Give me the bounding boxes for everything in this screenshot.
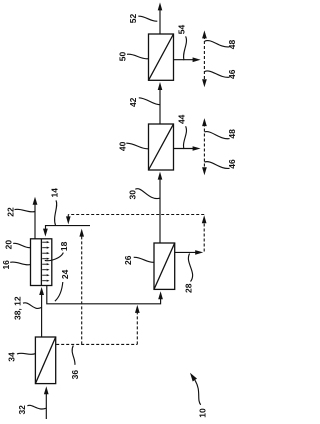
leader for 50 <box>127 54 148 59</box>
leader for 48 middle <box>205 132 230 139</box>
arrowhead bypass up into line 24 <box>135 305 140 313</box>
dashed recycle wire from 28 junction up and left into line 14 <box>68 215 204 252</box>
svg-text:48: 48 <box>227 40 237 50</box>
wire: stream 28 out of box 26 right <box>175 251 199 253</box>
leader for 42 <box>139 98 160 105</box>
svg-text:22: 22 <box>5 207 15 217</box>
svg-text:24: 24 <box>60 269 70 279</box>
arrowhead stream 38,12 into membrane unit <box>39 287 44 295</box>
wire: stream 54 out of box 50 right <box>174 59 197 61</box>
leader for 38, 12 <box>23 303 42 309</box>
svg-text:52: 52 <box>128 14 138 24</box>
wire: stream 38,12 from box 34 up into membrane unit bottom <box>41 293 43 338</box>
svg-text:42: 42 <box>128 97 138 107</box>
wire: line 24 from membrane unit bottom to box 26 bottom <box>47 286 161 304</box>
leader for 30 <box>135 189 160 199</box>
arrowhead stream 30 <box>158 172 163 180</box>
wire: feed stream 32 <box>45 393 47 420</box>
label 32 <box>17 405 27 415</box>
svg-text:44: 44 <box>177 114 187 124</box>
arrowhead stream 28 <box>195 250 203 255</box>
leader for 26 <box>134 257 155 262</box>
svg-text:40: 40 <box>118 141 128 151</box>
arrowhead stream 52 <box>158 2 163 10</box>
label 48 top <box>227 40 237 50</box>
label 28 <box>183 283 193 293</box>
label 50 <box>118 52 128 62</box>
arrowhead down stream 46 middle <box>202 167 207 175</box>
label 22 <box>5 207 15 217</box>
svg-text:28: 28 <box>183 283 193 293</box>
label 40 <box>118 141 128 151</box>
label 42 <box>128 97 138 107</box>
svg-text:36: 36 <box>70 370 80 380</box>
wire: stream 42 into box 50 <box>159 90 161 125</box>
leader for 22 <box>15 209 35 212</box>
leader for 18 <box>45 253 64 261</box>
label 14 <box>50 188 60 198</box>
leader for 48 top <box>205 41 230 47</box>
svg-text:20: 20 <box>4 240 14 250</box>
wire: stream 30 into box 40 <box>159 179 161 244</box>
dashed product split line top (streams 48/46) <box>203 36 205 82</box>
leader for 44 <box>184 126 187 149</box>
leader for 40 <box>126 143 148 149</box>
leader for 34 <box>17 353 35 354</box>
label 24 <box>60 269 70 279</box>
leader for 24 <box>55 282 63 301</box>
dashed product split line middle (streams 48/46) <box>203 124 205 170</box>
compressor unit box 34 <box>35 337 55 384</box>
membrane reactor unit 12/16 <box>31 239 52 286</box>
wire: stream 44 out of box 40 right <box>174 148 197 150</box>
label 34 <box>7 352 17 362</box>
label 52 <box>128 14 138 24</box>
arrowhead of pointer 10 <box>190 373 197 382</box>
label 10 <box>197 408 207 418</box>
curved pointer for reference numeral 10 <box>195 380 201 405</box>
svg-text:30: 30 <box>127 190 137 200</box>
arrowhead down stream 46 top <box>202 79 207 87</box>
svg-text:48: 48 <box>227 129 237 139</box>
arrowhead feed 32 into box 34 <box>44 386 49 394</box>
wire: line 14 feed into membrane unit top <box>46 226 91 230</box>
separator unit box 40 <box>149 124 174 170</box>
arrowhead stream 22 <box>33 197 38 205</box>
label 18 <box>59 241 69 251</box>
label 46 middle <box>227 159 237 169</box>
svg-text:54: 54 <box>177 25 187 35</box>
leader for 32 <box>27 405 46 409</box>
svg-text:50: 50 <box>118 52 128 62</box>
arrowhead up stream 48 middle <box>202 118 207 126</box>
label 16 <box>1 260 11 270</box>
label 44 <box>177 114 187 124</box>
leader for 52 <box>138 16 157 21</box>
leader for 28 <box>188 254 192 282</box>
separator unit box 50 <box>149 34 174 80</box>
leader for 54 <box>184 36 187 60</box>
leader for 16 <box>10 262 30 265</box>
leader for 46 middle <box>205 162 230 169</box>
arrowhead bypass up into line 14 <box>79 229 84 237</box>
arrowhead up on dashed recycle at corner <box>202 215 207 223</box>
arrowhead stream 42 <box>158 82 163 90</box>
leader for 36 <box>72 346 75 365</box>
label 54 <box>177 25 187 35</box>
leader for 46 top <box>205 71 230 77</box>
svg-text:16: 16 <box>1 260 11 270</box>
wire: stream 22 out of membrane unit top <box>34 204 36 239</box>
arrowhead stream 44 <box>193 146 201 151</box>
svg-text:38, 12: 38, 12 <box>13 296 23 320</box>
label 36 <box>70 370 80 380</box>
label 30 <box>127 190 137 200</box>
label 48 middle <box>227 129 237 139</box>
leader for 14 <box>55 200 57 225</box>
svg-text:14: 14 <box>50 188 60 198</box>
wire: stream 52 out of box 50 top <box>159 10 161 35</box>
svg-text:34: 34 <box>7 352 17 362</box>
label 26 <box>123 255 133 265</box>
svg-text:32: 32 <box>17 405 27 415</box>
label 46 top <box>227 69 237 79</box>
svg-text:46: 46 <box>227 159 237 169</box>
svg-text:26: 26 <box>123 255 133 265</box>
svg-text:10: 10 <box>197 408 207 418</box>
arrowhead down into line 14 from dashed recycle <box>66 216 71 224</box>
arrowhead line 24 up into box 26 <box>158 291 163 299</box>
arrowhead stream 54 <box>193 57 201 62</box>
membrane permeation arrows 18 <box>42 241 49 282</box>
separator unit box 26 <box>154 243 175 289</box>
dashed bypass wire 36 from box 34 to line 24 and line 14 <box>56 236 137 345</box>
arrowhead down line 14 into membrane unit <box>43 229 48 237</box>
label 38, 12 <box>13 296 23 320</box>
svg-text:18: 18 <box>59 241 69 251</box>
label 20 <box>4 240 14 250</box>
leader for 20 <box>13 243 31 247</box>
arrowhead up stream 48 top <box>202 30 207 38</box>
